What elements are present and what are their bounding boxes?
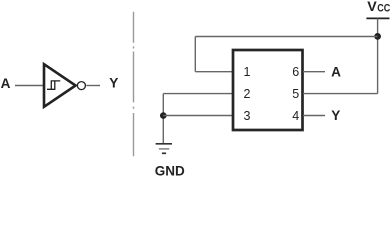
wire VCC riser down to pin 5 row xyxy=(377,18,379,93)
svg-text:5: 5 xyxy=(292,87,299,101)
wire pin 1 riser vertical xyxy=(194,37,196,72)
wire pin 6 to A xyxy=(303,71,325,73)
svg-text:VCC: VCC xyxy=(367,0,390,15)
wire pin2/pin3 riser down to ground xyxy=(162,94,164,144)
svg-text:6: 6 xyxy=(292,65,299,79)
wire to pin 3 xyxy=(163,115,233,117)
wire pin 5 to VCC riser xyxy=(303,93,378,95)
hysteresis symbol inside U1 xyxy=(47,80,60,90)
package U1 body (6-pin) xyxy=(233,50,303,130)
svg-text:4: 4 xyxy=(292,109,299,123)
power VCC terminal bar xyxy=(366,17,389,19)
dash-dot divider line xyxy=(133,12,135,156)
op-amp U1 (Schmitt-trigger inverter triangle) xyxy=(44,64,76,107)
junction dot at pin 3 row xyxy=(160,112,167,119)
ground symbol xyxy=(156,144,172,154)
svg-text:A: A xyxy=(331,64,341,79)
wire to pin 2 xyxy=(163,93,233,95)
wire top horizontal from pin 1 riser to VCC node xyxy=(195,36,377,38)
svg-text:A: A xyxy=(1,76,11,91)
wire pin 4 to Y xyxy=(303,115,325,117)
svg-text:Y: Y xyxy=(331,108,340,123)
svg-text:GND: GND xyxy=(155,163,185,177)
wire inverter output to Y xyxy=(86,85,100,87)
wire to pin 1 xyxy=(195,71,233,73)
svg-text:1: 1 xyxy=(244,65,251,79)
wire input A to inverter xyxy=(15,85,44,87)
svg-text:3: 3 xyxy=(244,109,251,123)
junction dot at VCC node xyxy=(374,33,381,40)
svg-text:Y: Y xyxy=(109,76,118,91)
inversion bubble of U1 xyxy=(77,82,85,90)
svg-text:2: 2 xyxy=(244,87,251,101)
